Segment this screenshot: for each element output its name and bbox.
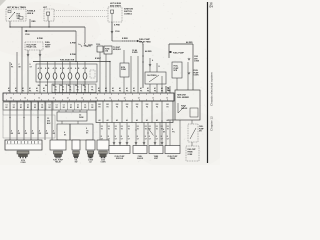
svg-text:16: 16 [84,87,86,89]
svg-text:C1: C1 [34,104,36,106]
svg-text:B2: B2 [41,107,43,109]
svg-text:Chapter 12: Chapter 12 [210,116,214,131]
svg-text:BL: BL [60,85,62,87]
svg-text:FUEL PMP: FUEL PMP [188,149,197,151]
svg-text:FUEL: FUEL [199,126,203,128]
svg-text:12: 12 [81,97,83,99]
svg-text:16: 16 [55,87,57,89]
svg-text:A2: A2 [89,161,91,164]
svg-text:INJ: INJ [136,104,139,106]
svg-text:B2: B2 [56,107,58,109]
svg-text:B2: B2 [6,107,8,109]
svg-text:MODULE: MODULE [113,49,122,51]
svg-text:D2: D2 [121,126,123,128]
svg-text:12: 12 [95,97,97,99]
svg-text:B2: B2 [77,107,79,109]
svg-text:PRIME: PRIME [170,158,176,160]
svg-text:Chassis electrical system: Chassis electrical system [210,72,214,106]
svg-text:D2: D2 [149,126,151,128]
svg-text:FUSE: FUSE [121,69,127,71]
svg-text:C1: C1 [63,104,65,106]
svg-text:CONN: CONN [194,75,200,77]
svg-text:BL: BL [68,85,70,87]
svg-text:16: 16 [69,87,71,89]
svg-text:RELAY: RELAY [55,161,61,164]
svg-text:A PNK: A PNK [70,42,76,45]
svg-text:C1: C1 [13,104,15,106]
svg-text:B PNK: B PNK [37,38,44,40]
svg-text:16: 16 [91,87,93,89]
svg-text:C1: C1 [27,104,29,106]
svg-text:12: 12 [166,97,168,99]
svg-text:B2: B2 [91,107,93,109]
svg-text:12: 12 [67,97,69,99]
svg-text:C1: C1 [56,104,58,106]
svg-text:C1: C1 [20,104,22,106]
svg-text:D2: D2 [128,126,130,128]
svg-text:MODULE: MODULE [116,158,124,160]
svg-text:B2: B2 [20,107,22,109]
svg-text:BL: BL [75,85,77,87]
svg-text:C1: C1 [70,104,72,106]
svg-text:FUEL PUMP: FUEL PUMP [173,52,185,54]
svg-text:PRIME: PRIME [188,151,193,153]
svg-text:12: 12 [38,97,40,99]
svg-text:INJ: INJ [126,104,129,106]
svg-text:12: 12 [152,97,154,99]
svg-text:B2: B2 [84,107,86,109]
svg-text:CONN: CONN [194,61,200,63]
svg-text:16: 16 [62,87,64,89]
svg-text:LINK A: LINK A [27,12,34,15]
svg-text:12: 12 [109,97,111,99]
svg-text:C1: C1 [91,104,93,106]
svg-text:B RED: B RED [122,38,129,40]
svg-text:C100: C100 [25,34,30,36]
svg-text:16: 16 [77,87,79,89]
svg-text:C100: C100 [115,31,120,33]
svg-text:B2: B2 [48,107,50,109]
svg-text:D RED: D RED [132,52,138,54]
svg-text:12: 12 [124,97,126,99]
svg-text:CONN: CONN [21,162,27,164]
svg-text:C1: C1 [48,104,50,106]
svg-text:D2: D2 [108,126,110,128]
svg-text:RELAY FEED: RELAY FEED [139,40,151,43]
svg-text:B2: B2 [34,107,36,109]
svg-text:SW: SW [75,162,78,164]
svg-text:12: 12 [10,97,12,99]
svg-text:FUEL INJECTOR: FUEL INJECTOR [60,59,75,61]
svg-text:E4: E4 [210,5,214,9]
svg-text:INJ: INJ [166,104,169,106]
svg-text:12: 12 [138,97,140,99]
svg-text:A6 RED: A6 RED [145,50,152,53]
svg-text:TO C100: TO C100 [84,46,92,48]
svg-text:BL: BL [45,85,47,87]
svg-text:B WHT: B WHT [95,58,102,60]
svg-text:12: 12 [24,97,26,99]
svg-text:INJ: INJ [116,104,119,106]
svg-text:HOT AT ALL TIMES: HOT AT ALL TIMES [7,6,27,9]
svg-text:C1: C1 [41,104,43,106]
svg-text:D2: D2 [115,126,117,128]
svg-text:B PNK: B PNK [70,54,77,56]
svg-text:B2: B2 [13,107,15,109]
svg-text:D2: D2 [137,126,139,128]
svg-text:BL: BL [38,85,40,87]
svg-text:CONN: CONN [101,162,107,164]
svg-text:FUEL SENDER: FUEL SENDER [177,97,190,99]
svg-text:12: 12 [53,97,55,99]
svg-text:D2: D2 [101,126,103,128]
svg-text:BL: BL [83,85,85,87]
svg-text:TEST: TEST [45,47,51,49]
svg-text:RELAY COIL: RELAY COIL [27,46,37,49]
svg-text:C1: C1 [6,104,8,106]
svg-text:B2: B2 [70,107,72,109]
svg-text:INJ: INJ [146,104,149,106]
svg-text:PPL: PPL [172,131,175,133]
svg-text:GAUGE: GAUGE [181,107,188,110]
svg-text:C1: C1 [84,104,86,106]
svg-text:B2: B2 [63,107,65,109]
svg-text:D2: D2 [167,126,169,128]
svg-text:GAUGE: GAUGE [137,157,144,160]
svg-text:INJ: INJ [106,104,109,106]
svg-text:INJ: INJ [156,104,159,106]
svg-text:OIL PRESS: OIL PRESS [147,75,157,77]
svg-text:C1: C1 [77,104,79,106]
svg-text:INJ: INJ [98,104,101,106]
svg-text:A PNK: A PNK [114,24,120,27]
svg-text:D2: D2 [145,126,147,128]
svg-text:D2: D2 [156,126,158,128]
svg-text:CONN A: CONN A [124,12,132,15]
svg-text:A6 RED: A6 RED [186,41,193,44]
svg-text:RED: RED [32,21,37,23]
svg-text:B2: B2 [27,107,29,109]
svg-text:BL: BL [53,85,55,87]
